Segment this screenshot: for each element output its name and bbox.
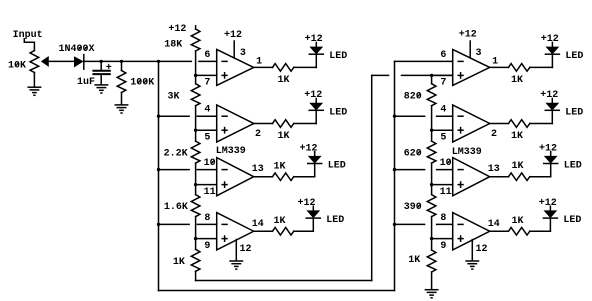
svg-text:1K: 1K — [173, 257, 185, 268]
svg-text:1K: 1K — [278, 131, 290, 142]
svg-text:13: 13 — [252, 164, 264, 175]
svg-text:LED: LED — [565, 107, 583, 118]
svg-text:9: 9 — [440, 241, 446, 252]
svg-text:620: 620 — [404, 149, 422, 160]
svg-text:1K: 1K — [512, 216, 524, 227]
svg-text:7: 7 — [204, 78, 210, 89]
svg-text:3: 3 — [476, 48, 482, 59]
svg-text:14: 14 — [488, 219, 500, 230]
svg-text:8: 8 — [204, 213, 210, 224]
svg-text:4: 4 — [440, 105, 446, 116]
svg-text:LED: LED — [329, 107, 347, 118]
svg-text:+12: +12 — [539, 198, 557, 209]
svg-text:1N400X: 1N400X — [59, 44, 95, 55]
svg-text:8: 8 — [440, 213, 446, 224]
svg-text:Input: Input — [13, 30, 43, 41]
svg-text:+12: +12 — [305, 34, 323, 45]
svg-text:3K: 3K — [168, 91, 180, 102]
svg-text:+12: +12 — [459, 30, 477, 41]
svg-text:13: 13 — [488, 164, 500, 175]
svg-text:LED: LED — [329, 51, 347, 62]
svg-text:LED: LED — [326, 215, 344, 226]
svg-text:1K: 1K — [278, 75, 290, 86]
svg-text:LED: LED — [328, 161, 346, 172]
svg-text:+12: +12 — [539, 143, 557, 154]
svg-text:10K: 10K — [8, 60, 26, 71]
svg-text:+: + — [106, 63, 112, 74]
svg-text:100K: 100K — [130, 77, 154, 88]
svg-text:+12: +12 — [298, 198, 316, 209]
svg-text:LM339: LM339 — [216, 146, 246, 157]
svg-text:LED: LED — [565, 51, 583, 62]
svg-text:2.2K: 2.2K — [164, 149, 188, 160]
svg-text:1K: 1K — [408, 255, 420, 266]
svg-text:1: 1 — [256, 56, 262, 67]
svg-text:+12: +12 — [224, 30, 242, 41]
svg-text:390: 390 — [404, 202, 422, 213]
svg-text:7: 7 — [440, 78, 446, 89]
svg-text:4: 4 — [204, 105, 210, 116]
svg-text:2: 2 — [491, 129, 497, 140]
svg-text:6: 6 — [440, 50, 446, 61]
svg-text:12: 12 — [240, 244, 252, 255]
svg-text:9: 9 — [204, 241, 210, 252]
svg-text:1: 1 — [492, 56, 498, 67]
svg-text:LM339: LM339 — [452, 147, 482, 158]
svg-text:1K: 1K — [274, 216, 286, 227]
svg-text:2: 2 — [255, 129, 261, 140]
svg-text:18K: 18K — [164, 40, 182, 51]
svg-text:+12: +12 — [300, 143, 318, 154]
svg-text:+12: +12 — [540, 90, 558, 101]
svg-text:+12: +12 — [541, 34, 559, 45]
svg-text:1.6K: 1.6K — [164, 202, 188, 213]
svg-text:3: 3 — [240, 48, 246, 59]
svg-text:LED: LED — [564, 161, 582, 172]
svg-text:820: 820 — [404, 91, 422, 102]
svg-text:5: 5 — [204, 133, 210, 144]
svg-text:+12: +12 — [168, 24, 186, 35]
svg-text:12: 12 — [476, 244, 488, 255]
svg-text:LED: LED — [563, 215, 581, 226]
svg-text:1K: 1K — [512, 161, 524, 172]
svg-text:5: 5 — [440, 133, 446, 144]
svg-text:1K: 1K — [274, 162, 286, 173]
svg-text:14: 14 — [252, 219, 264, 230]
svg-text:11: 11 — [204, 187, 216, 198]
svg-text:1K: 1K — [511, 131, 523, 142]
svg-text:11: 11 — [440, 187, 452, 198]
svg-text:1uF: 1uF — [77, 77, 95, 88]
svg-text:+12: +12 — [304, 90, 322, 101]
svg-text:1K: 1K — [511, 75, 523, 86]
svg-text:6: 6 — [204, 50, 210, 61]
